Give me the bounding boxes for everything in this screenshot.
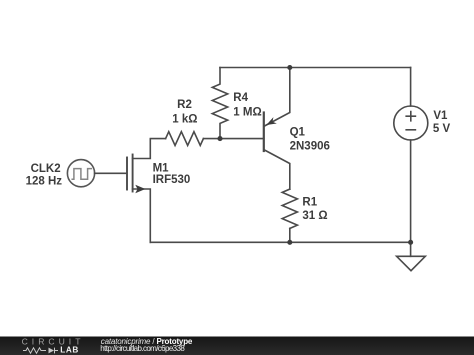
- square wave glyph inside CLK2: [72, 169, 91, 180]
- V1 plus sign: [406, 112, 415, 121]
- wire R2 right to junction and on to Q1 base: [203, 138, 263, 140]
- resistor R4 top lead + zigzag + bottom lead: [212, 68, 227, 139]
- transistor Q1 emitter arrow (PNP points toward base): [266, 117, 277, 125]
- V1 minus sign: [406, 129, 415, 131]
- svg-text:2N3906: 2N3906: [290, 141, 330, 153]
- junction node R1/bottom rail: [287, 240, 292, 245]
- junction node ground/bottom rail: [408, 240, 413, 245]
- junction node R2/R4/base: [217, 136, 222, 141]
- svg-text:Q1: Q1: [290, 126, 306, 138]
- transistor M1 channel bar: [132, 155, 134, 192]
- svg-text:R2: R2: [177, 99, 192, 111]
- svg-text:31 Ω: 31 Ω: [302, 210, 327, 222]
- svg-text:R4: R4: [233, 92, 248, 104]
- svg-text:1 kΩ: 1 kΩ: [172, 113, 197, 125]
- svg-text:R1: R1: [302, 197, 317, 209]
- resistor R1 zigzag: [282, 189, 297, 228]
- wire CLK2 output to M1 gate: [95, 172, 127, 174]
- transistor M1 source arrow: [135, 185, 145, 194]
- svg-text:128 Hz: 128 Hz: [26, 176, 63, 188]
- voltage source V1 top lead: [410, 68, 412, 107]
- svg-text:IRF530: IRF530: [153, 174, 191, 186]
- transistor M1 (NMOS IRF530) gate bar: [126, 158, 128, 190]
- svg-text:http://circuitlab.com/c6pe338: http://circuitlab.com/c6pe338: [100, 344, 185, 353]
- transistor Q1 emitter lead: [265, 68, 290, 127]
- wire bottom rail: [150, 241, 410, 243]
- logo zigzag + diode glyph: [23, 348, 58, 354]
- transistor M1 drain lead: [133, 139, 151, 159]
- svg-text:CLK2: CLK2: [31, 163, 61, 175]
- transistor Q1 collector lead: [265, 150, 290, 189]
- svg-text:LAB: LAB: [60, 345, 79, 354]
- wire top rail: [220, 67, 411, 69]
- junction node emitter/top rail: [287, 65, 292, 70]
- resistor R2 zigzag: [166, 132, 204, 146]
- transistor Q1 (PNP 2N3906) base bar: [263, 113, 265, 152]
- wire R1 bottom to ground rail: [289, 228, 291, 242]
- svg-text:1 MΩ: 1 MΩ: [233, 107, 261, 119]
- svg-text:V1: V1: [433, 110, 448, 122]
- ground symbol: [397, 256, 426, 270]
- voltage source CLK2 (square-wave source): [67, 160, 94, 187]
- svg-text:5 V: 5 V: [433, 123, 451, 135]
- svg-text:M1: M1: [153, 163, 170, 175]
- transistor M1 source lead: [133, 189, 151, 242]
- voltage source V1 bottom lead: [410, 140, 412, 256]
- voltage source V1 body: [394, 106, 428, 140]
- wire R2 row: drain node to base node: [150, 138, 165, 140]
